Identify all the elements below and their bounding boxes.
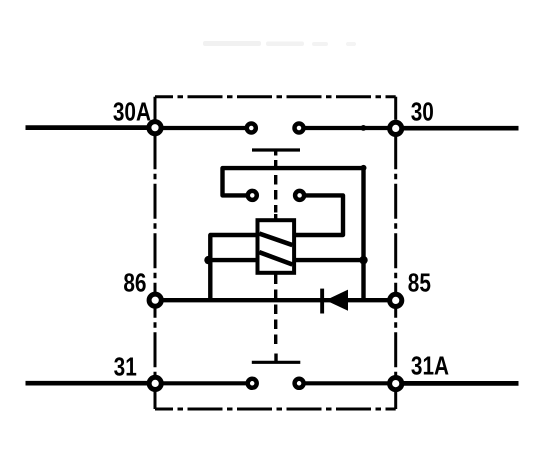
svg-text:30A: 30A — [113, 98, 151, 127]
lower contact K2 right open circle — [295, 379, 304, 388]
svg-text:31: 31 — [114, 352, 137, 381]
wire: coil right lower to right vertical — [294, 258, 364, 262]
junction dot left vertical at coil lower stub — [204, 256, 212, 264]
wire: inner contact left leg up and over to right vertical — [223, 168, 364, 300]
terminal 85 — [390, 294, 402, 306]
faint scan artifact smudge 3 — [312, 42, 328, 46]
diode V1 cathode bar — [320, 289, 324, 314]
armature link stub above bottom bar — [274, 354, 277, 363]
diode V1 triangle (pointing left toward 86) — [326, 290, 348, 311]
terminal 86 — [149, 294, 161, 306]
faint scan artifact smudge 1 — [203, 41, 261, 46]
inner contact K3 left open circle — [248, 191, 257, 200]
terminal 31A — [390, 378, 402, 390]
upper contact K1 left open circle — [247, 124, 256, 133]
wire: coil circuit 86 to 85 (main horizontal) — [155, 298, 396, 302]
upper contact K1 right open circle — [295, 124, 304, 133]
terminal 31 — [149, 377, 161, 389]
wire: coil left upper loop down to 86 wire — [210, 235, 257, 300]
relay enclosure outline top (dash-dot) — [155, 95, 396, 98]
terminal 30A — [149, 122, 161, 134]
armature link dashed line (lower section) — [274, 275, 277, 348]
wire: external lead into terminal 31 — [26, 381, 156, 386]
faint scan artifact smudge 4 — [346, 42, 356, 46]
armature link dashed line (top section) — [274, 160, 277, 213]
armature actuator bar (bottom) — [252, 361, 300, 364]
armature link stub under top bar — [274, 150, 277, 156]
relay enclosure outline bottom (dash-dot) — [155, 408, 396, 411]
relay coil K (hatched rectangle) — [258, 220, 295, 273]
junction dot on 30 wire — [361, 125, 367, 131]
coil hatch diagonal 2 — [259, 252, 292, 264]
wire: external lead into terminal 30A — [26, 125, 156, 130]
lower contact K2 left open circle — [248, 379, 257, 388]
wire: external lead from terminal 31A — [396, 381, 519, 386]
svg-text:30: 30 — [411, 98, 434, 127]
wire: coil left lower stub — [210, 258, 257, 262]
terminal 30 — [390, 122, 402, 134]
junction dot corner top-right of inner loop — [361, 165, 367, 171]
wire: external lead from terminal 30 — [396, 126, 519, 131]
armature actuator bar (top) — [252, 148, 300, 151]
junction dot right vertical at coil lower wire — [359, 256, 367, 264]
wire: lower contact K2 right to terminal 31A — [299, 381, 396, 385]
relay enclosure outline right (dash-dot) — [394, 97, 397, 409]
wire: inner contact right to coil right upper — [294, 195, 343, 235]
relay enclosure outline left (dash-dot) — [154, 97, 157, 409]
svg-text:85: 85 — [408, 268, 431, 297]
armature link stub touching coil top — [274, 214, 277, 219]
wire: terminal 31 to lower contact K2 left — [155, 381, 252, 385]
faint scan artifact smudge 2 — [266, 42, 304, 47]
svg-text:86: 86 — [123, 268, 146, 297]
wire: terminal 30A to upper contact K1 left — [155, 126, 251, 130]
coil hatch diagonal 1 — [259, 234, 292, 246]
inner contact K3 right open circle — [295, 191, 304, 200]
wire: upper contact K1 right to terminal 30 — [299, 126, 396, 130]
svg-text:31A: 31A — [411, 351, 449, 380]
